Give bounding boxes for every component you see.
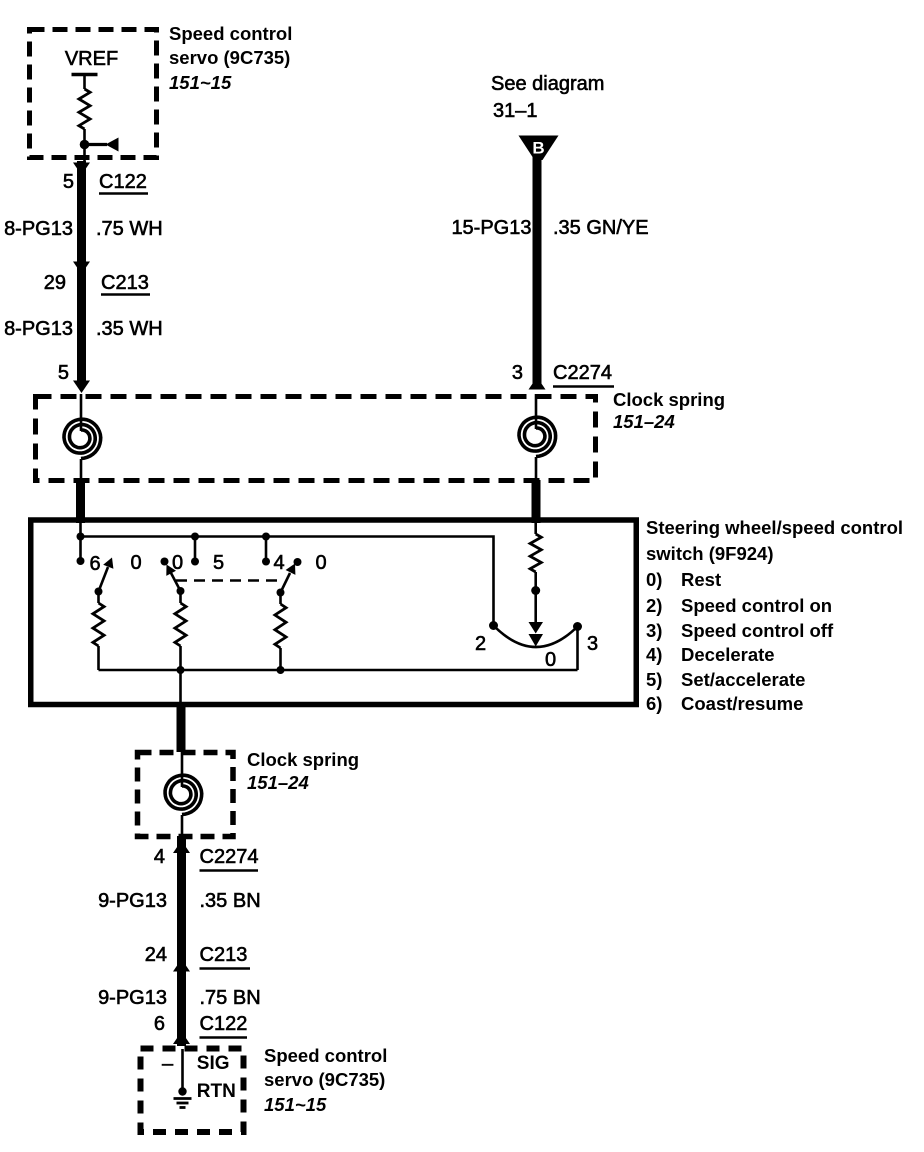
exit wire	[179, 670, 182, 704]
svg-text:Speed control: Speed control	[169, 23, 292, 44]
svg-text:15-PG13: 15-PG13	[451, 217, 531, 239]
svg-text:Clock spring: Clock spring	[247, 749, 359, 770]
on/off rotary: feed resistor	[534, 522, 537, 534]
svg-text:0: 0	[315, 552, 326, 574]
svg-text:C122: C122	[99, 171, 147, 193]
svg-text:0: 0	[545, 649, 556, 671]
svg-text:–: –	[162, 1053, 174, 1075]
mechanical link dashed line	[176, 579, 279, 582]
VREF terminal bar	[72, 73, 98, 77]
resistor (servo potentiometer)	[79, 89, 90, 129]
contact 4 dot	[262, 558, 270, 566]
switch 1 (coast/resume) arm	[99, 567, 109, 592]
svg-text:Speed control off: Speed control off	[681, 620, 834, 641]
connector arrow at C122	[73, 163, 90, 176]
svg-text:SIG: SIG	[197, 1053, 230, 1074]
svg-text:5: 5	[63, 171, 74, 193]
svg-text:C213: C213	[200, 944, 248, 966]
svg-text:.75 BN: .75 BN	[200, 987, 261, 1009]
switch 3 (decelerate) arm	[281, 573, 291, 593]
svg-text:151~15: 151~15	[169, 72, 232, 93]
svg-text:6: 6	[154, 1013, 165, 1035]
svg-text:servo (9C735): servo (9C735)	[264, 1069, 385, 1090]
rotary contact arc	[494, 626, 578, 648]
svg-text:Set/accelerate: Set/accelerate	[681, 669, 805, 690]
node: wiper junction dot	[80, 140, 90, 150]
contact 2 dot	[489, 621, 498, 630]
connector arrow at C213 (pin 24)	[173, 959, 190, 972]
resistor under switch 3	[279, 593, 282, 605]
contact 3 dot	[573, 622, 582, 631]
svg-text:servo (9C735): servo (9C735)	[169, 47, 290, 68]
wire	[83, 129, 86, 162]
svg-text:Speed control: Speed control	[264, 1045, 387, 1066]
svg-text:.35 GN/YE: .35 GN/YE	[553, 217, 649, 239]
wiper double arrowhead	[529, 622, 544, 634]
clock spring coil, left	[80, 394, 83, 431]
clock spring box (151-24), upper	[36, 397, 596, 481]
drop to contact 5	[194, 537, 197, 562]
svg-text:8-PG13: 8-PG13	[4, 318, 73, 340]
drop to contact 4	[265, 537, 268, 562]
svg-text:See diagram: See diagram	[491, 73, 604, 95]
svg-text:3: 3	[512, 362, 523, 384]
contact 0 dot (switch 2)	[161, 558, 169, 566]
wire	[83, 75, 86, 90]
svg-text:C122: C122	[200, 1013, 248, 1035]
svg-text:Coast/resume: Coast/resume	[681, 693, 803, 714]
resistor under switch 1	[97, 592, 100, 604]
svg-text:0): 0)	[646, 569, 662, 590]
svg-text:C213: C213	[101, 272, 149, 294]
contact 5 dot	[191, 558, 199, 566]
svg-text:4: 4	[154, 846, 165, 868]
svg-text:.35 WH: .35 WH	[96, 318, 163, 340]
connector arrow into clock spring	[73, 381, 90, 394]
top rail wire	[81, 537, 494, 626]
svg-text:Decelerate: Decelerate	[681, 644, 775, 665]
wire: pin 5 to C122 to C213 to clock spring, .75 WH / .35 WH	[77, 161, 86, 382]
connector arrow at C213	[73, 262, 90, 275]
svg-text:151–24: 151–24	[613, 411, 675, 432]
off-page connector B	[519, 136, 559, 161]
svg-text:3): 3)	[646, 620, 662, 641]
svg-text:Rest: Rest	[681, 569, 721, 590]
clock spring box (151-24), lower	[138, 753, 234, 837]
wire: B to C2274, .35 GN/YE	[533, 157, 542, 385]
svg-text:Steering wheel/speed control: Steering wheel/speed control	[646, 517, 903, 538]
svg-text:6: 6	[89, 553, 100, 575]
svg-text:4: 4	[273, 552, 284, 574]
connector arrow at C2274 (pin 4)	[173, 841, 190, 854]
svg-text:9-PG13: 9-PG13	[98, 890, 167, 912]
clock spring coil, right	[535, 394, 538, 429]
svg-text:151~15: 151~15	[264, 1094, 327, 1115]
svg-text:151–24: 151–24	[247, 772, 309, 793]
connector arrow at C122 (pin 6)	[173, 1032, 190, 1045]
speed control servo (9C735) box, top	[30, 30, 157, 158]
wire: switch box to clock spring 2	[177, 702, 186, 752]
bottom rail wire	[99, 669, 578, 672]
svg-text:9-PG13: 9-PG13	[98, 987, 167, 1009]
wire into servo	[181, 1049, 184, 1091]
svg-text:0: 0	[130, 552, 141, 574]
connector arrow at C2274	[529, 377, 546, 390]
svg-text:2): 2)	[646, 595, 662, 616]
node dots on rail	[77, 533, 85, 541]
svg-text:VREF: VREF	[65, 48, 118, 70]
wire: clock spring 2 down to servo, .35 BN / .75 BN	[177, 836, 186, 1046]
svg-text:B: B	[532, 139, 544, 158]
steering wheel/speed control switch (9F924) box	[31, 520, 637, 705]
svg-text:6): 6)	[646, 693, 662, 714]
contact 6 dot	[77, 557, 85, 565]
clock spring coil, lower	[181, 750, 184, 787]
wire stub right coil to switch box	[532, 480, 541, 523]
svg-text:Clock spring: Clock spring	[613, 389, 725, 410]
svg-text:31–1: 31–1	[493, 100, 538, 122]
wire from contact 3 to bottom rail	[576, 627, 579, 671]
svg-text:29: 29	[44, 272, 66, 294]
svg-text:5: 5	[213, 552, 224, 574]
svg-text:C2274: C2274	[553, 362, 612, 384]
svg-text:.75 WH: .75 WH	[96, 218, 163, 240]
svg-text:C2274: C2274	[200, 846, 259, 868]
svg-text:3: 3	[587, 633, 598, 655]
svg-text:.35 BN: .35 BN	[200, 890, 261, 912]
svg-text:switch (9F924): switch (9F924)	[646, 543, 774, 564]
switch 2 (set/accelerate) arm	[171, 573, 181, 591]
potentiometer wiper arrow	[85, 143, 108, 146]
svg-text:2: 2	[475, 633, 486, 655]
svg-text:4): 4)	[646, 644, 662, 665]
SIG RTN ground terminal	[178, 1087, 186, 1095]
svg-text:5): 5)	[646, 669, 662, 690]
svg-text:RTN: RTN	[197, 1081, 236, 1102]
svg-text:24: 24	[145, 944, 167, 966]
speed control servo (9C735) box, bottom	[141, 1049, 244, 1133]
svg-text:Speed control on: Speed control on	[681, 595, 832, 616]
entry wire to node	[79, 522, 82, 561]
resistor under switch 2	[179, 591, 182, 603]
svg-text:5: 5	[58, 362, 69, 384]
svg-text:8-PG13: 8-PG13	[4, 218, 73, 240]
wire stub left coil to switch box	[76, 480, 85, 523]
